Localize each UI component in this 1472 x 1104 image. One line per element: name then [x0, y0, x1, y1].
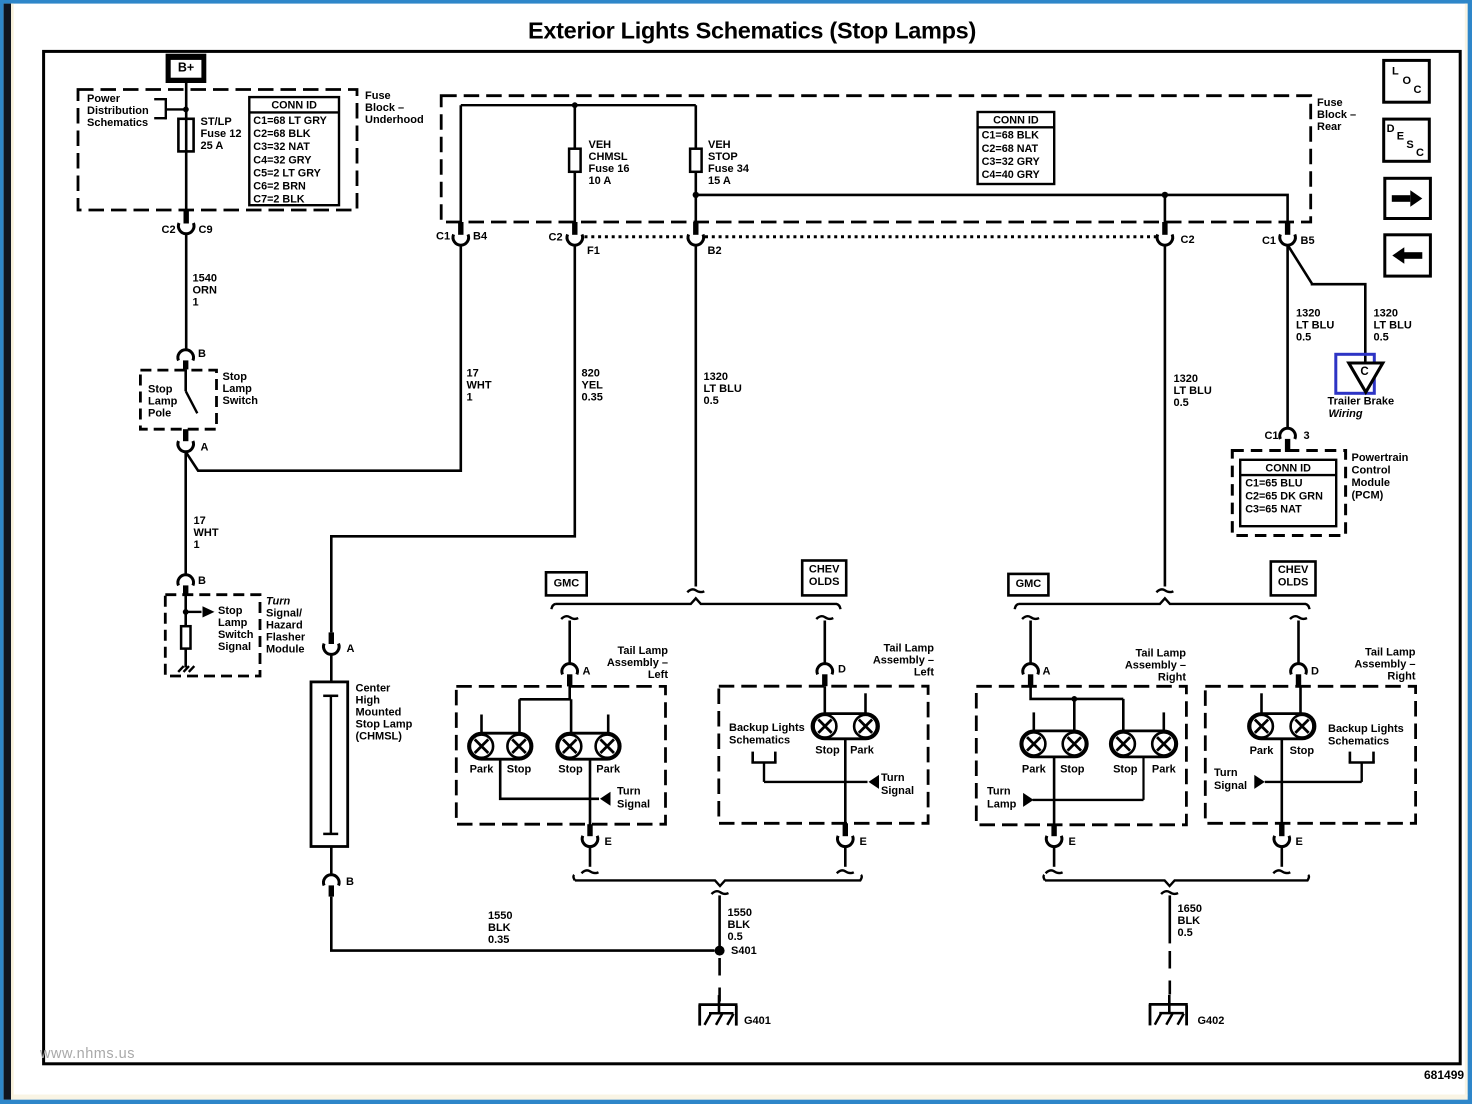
svg-text:Switch: Switch — [218, 629, 254, 641]
svg-text:C2: C2 — [162, 224, 176, 236]
svg-text:Block –: Block – — [365, 102, 404, 114]
bulb stop/park CHEV-left — [812, 714, 879, 739]
wire bus to C1/B4 — [459, 105, 462, 222]
svg-text:GMC: GMC — [554, 577, 580, 589]
svg-text:C1: C1 — [436, 231, 450, 243]
ground G402 — [1149, 1003, 1188, 1006]
trailer brake connector C triangle — [1349, 363, 1383, 392]
svg-text:Stop: Stop — [148, 384, 173, 396]
svg-text:Signal: Signal — [1214, 780, 1247, 792]
svg-text:Park: Park — [1022, 764, 1047, 776]
node junction below fuse 34 — [693, 192, 699, 198]
svg-text:3: 3 — [1304, 430, 1310, 442]
svg-text:1650: 1650 — [1178, 903, 1202, 915]
label CHEV OLDS left — [802, 561, 846, 596]
svg-text:D: D — [1311, 665, 1319, 677]
battery B+ terminal box — [166, 54, 207, 83]
dark left margin bar — [4, 4, 11, 1100]
svg-text:Turn: Turn — [266, 596, 291, 608]
svg-text:15 A: 15 A — [708, 175, 731, 187]
connector E GMC-right — [1046, 825, 1076, 848]
svg-text:C2=65 DK GRN: C2=65 DK GRN — [1245, 491, 1323, 503]
wire branch to GMC-right A — [1029, 621, 1032, 664]
svg-text:VEH: VEH — [708, 139, 731, 151]
svg-text:Stop: Stop — [815, 745, 840, 757]
svg-text:C1: C1 — [1262, 235, 1276, 247]
svg-text:WHT: WHT — [467, 380, 492, 392]
node junction rear bus at C2 — [1162, 192, 1168, 198]
svg-text:F1: F1 — [587, 245, 600, 257]
svg-text:www.nhms.us: www.nhms.us — [39, 1046, 135, 1062]
svg-text:0.5: 0.5 — [1178, 927, 1193, 939]
node splice S401 — [715, 946, 725, 956]
svg-text:GMC: GMC — [1016, 578, 1042, 590]
svg-text:Tail Lamp: Tail Lamp — [1365, 647, 1416, 659]
svg-text:Block –: Block – — [1317, 109, 1356, 121]
svg-text:E: E — [605, 836, 612, 848]
svg-text:(PCM): (PCM) — [1352, 489, 1384, 501]
right distribution bus — [1015, 598, 1310, 609]
svg-text:STOP: STOP — [708, 151, 738, 163]
dashed box PCM — [1232, 451, 1345, 536]
svg-text:Hazard: Hazard — [266, 620, 303, 632]
svg-text:Stop: Stop — [558, 763, 583, 775]
svg-text:Stop: Stop — [218, 605, 243, 617]
svg-text:Assembly –: Assembly – — [1125, 660, 1186, 672]
svg-text:O: O — [1403, 75, 1412, 87]
svg-text:B: B — [346, 876, 354, 888]
svg-text:CONN ID: CONN ID — [1265, 462, 1311, 474]
svg-text:1320: 1320 — [1374, 308, 1398, 320]
svg-text:ORN: ORN — [193, 285, 218, 297]
turn signal arrow CHEV-left — [845, 775, 879, 789]
icon box next arrow — [1385, 178, 1431, 218]
svg-text:Exterior Lights Schematics (St: Exterior Lights Schematics (Stop Lamps) — [528, 18, 976, 44]
wire D into bulb CHEV-right — [1299, 686, 1302, 713]
svg-text:Left: Left — [914, 667, 935, 679]
svg-text:C2=68 BLK: C2=68 BLK — [253, 128, 311, 140]
ground bus left pair — [573, 875, 861, 886]
wire-continuation mark GMC-right branch — [1022, 616, 1039, 619]
stop lamp switch signal arrow — [186, 606, 215, 617]
park filament stub GMC-right inner — [1163, 712, 1166, 731]
power distribution reference bracket — [154, 98, 186, 119]
svg-text:Lamp: Lamp — [218, 617, 248, 629]
svg-text:Signal: Signal — [218, 641, 251, 653]
park filament stub CHEV-left — [864, 693, 867, 713]
wire D into bulb CHEV-left — [823, 686, 826, 713]
svg-text:(CHMSL): (CHMSL) — [356, 731, 403, 743]
svg-text:Right: Right — [1158, 672, 1186, 684]
wire branch to GMC-left A — [568, 621, 571, 664]
svg-text:17: 17 — [467, 368, 479, 380]
svg-text:Backup Lights: Backup Lights — [729, 722, 805, 734]
dashed box tail lamp assembly left CHEV — [719, 686, 928, 823]
wire stop lamp switch signal — [184, 595, 187, 626]
wire-continuation mark at right bus feed — [1156, 589, 1173, 592]
svg-text:S401: S401 — [731, 945, 757, 957]
dashed box turn signal hazard flasher module — [165, 595, 260, 676]
svg-text:C1=65 BLU: C1=65 BLU — [1245, 478, 1303, 490]
svg-text:E: E — [1397, 130, 1404, 142]
svg-text:C2: C2 — [1181, 234, 1195, 246]
svg-text:A: A — [1043, 665, 1051, 677]
svg-text:Stop: Stop — [507, 763, 532, 775]
wire A into bulbs GMC-left — [520, 686, 572, 733]
svg-text:0.5: 0.5 — [728, 931, 743, 943]
ground G401 — [699, 1003, 738, 1006]
turn signal arrow GMC-left — [600, 792, 611, 806]
svg-text:Lamp: Lamp — [987, 798, 1017, 810]
wire E to ground bus GMC-right — [1053, 847, 1056, 867]
svg-text:C4=32 GRY: C4=32 GRY — [253, 154, 312, 166]
svg-text:Center: Center — [356, 683, 392, 695]
park filament stub GMC-left outer — [480, 715, 483, 734]
svg-text:1: 1 — [194, 539, 200, 551]
svg-text:0.35: 0.35 — [488, 934, 509, 946]
svg-text:A: A — [347, 643, 355, 655]
wire stop output CHEV-left — [844, 739, 847, 836]
svg-text:Wiring: Wiring — [1329, 408, 1363, 420]
wire 1550 BLK 0.35 to S401 — [331, 897, 714, 951]
connector B at stop lamp switch — [178, 348, 206, 370]
svg-text:ST/LP: ST/LP — [201, 116, 232, 128]
wire-continuation mark E GMC-right — [1046, 870, 1063, 873]
svg-text:0.35: 0.35 — [582, 392, 603, 404]
svg-text:Backup Lights: Backup Lights — [1328, 723, 1404, 735]
svg-text:Power: Power — [87, 93, 121, 105]
park filament stub GMC-right outer — [1033, 712, 1036, 731]
bulb park/stop GMC-left outer — [469, 733, 533, 759]
svg-text:B4: B4 — [473, 231, 488, 243]
svg-text:C: C — [1414, 84, 1422, 96]
svg-text:BLK: BLK — [728, 919, 751, 931]
bulb park/stop GMC-right outer — [1021, 731, 1088, 757]
svg-text:Trailer Brake: Trailer Brake — [1328, 395, 1395, 407]
svg-text:L: L — [1392, 66, 1399, 78]
svg-text:0.5: 0.5 — [1374, 332, 1389, 344]
wire B+ to fuse ST/LP — [185, 83, 188, 210]
svg-text:OLDS: OLDS — [1278, 577, 1309, 589]
svg-text:Stop Lamp: Stop Lamp — [356, 719, 413, 731]
wire-continuation mark CHEV-left branch — [816, 616, 833, 619]
connector C1/3 at PCM — [1264, 428, 1309, 452]
svg-text:C2=68 NAT: C2=68 NAT — [982, 143, 1039, 155]
svg-text:Switch: Switch — [223, 395, 259, 407]
svg-text:1320: 1320 — [704, 371, 728, 383]
svg-text:Turn: Turn — [1214, 767, 1238, 779]
svg-text:Powertrain: Powertrain — [1352, 452, 1409, 464]
svg-text:C: C — [1416, 147, 1424, 159]
svg-text:C4=40 GRY: C4=40 GRY — [982, 169, 1041, 181]
svg-text:Assembly –: Assembly – — [873, 655, 934, 667]
svg-text:Assembly –: Assembly – — [1354, 659, 1415, 671]
wire bus to fuse 16 — [573, 105, 576, 222]
connector D CHEV-right — [1291, 664, 1319, 687]
svg-text:LT BLU: LT BLU — [1174, 385, 1212, 397]
svg-text:G401: G401 — [744, 1015, 771, 1027]
svg-text:0.5: 0.5 — [704, 395, 719, 407]
svg-text:Turn: Turn — [881, 772, 905, 784]
connector E CHEV-left — [838, 823, 867, 848]
wire rear bus fuse34 to B5 corner — [696, 195, 1288, 222]
dashed box Fuse Block - Rear — [441, 96, 1310, 222]
connector A GMC-left — [562, 664, 591, 687]
wire 1320 LT BLU from B2 — [694, 245, 697, 586]
svg-text:17: 17 — [194, 515, 206, 527]
wire-continuation mark GMC-left branch — [561, 616, 578, 619]
svg-text:LT BLU: LT BLU — [704, 383, 742, 395]
connector C2 rear — [1157, 222, 1194, 246]
connector C2/C9 — [162, 210, 213, 236]
connector A at stop lamp switch — [178, 429, 209, 453]
svg-text:1320: 1320 — [1174, 373, 1198, 385]
svg-text:Lamp: Lamp — [148, 396, 178, 408]
svg-text:Right: Right — [1387, 671, 1415, 683]
wire E to ground bus CHEV-left — [844, 847, 847, 867]
svg-text:Park: Park — [1152, 764, 1177, 776]
svg-text:High: High — [356, 695, 381, 707]
svg-text:Fuse: Fuse — [1317, 97, 1343, 109]
label GMC right — [1008, 574, 1048, 596]
svg-text:YEL: YEL — [582, 380, 604, 392]
svg-text:Schematics: Schematics — [729, 734, 790, 746]
dashed box Fuse Block - Underhood — [78, 90, 357, 211]
svg-text:C1: C1 — [1264, 430, 1278, 442]
svg-text:C3=32 NAT: C3=32 NAT — [253, 141, 310, 153]
connector B2 — [688, 222, 722, 257]
svg-text:Rear: Rear — [1317, 121, 1342, 133]
wire bus to fuse 34 — [694, 105, 697, 222]
svg-text:CONN ID: CONN ID — [271, 100, 317, 112]
svg-text:Schematics: Schematics — [1328, 736, 1389, 748]
svg-text:Stop: Stop — [1290, 745, 1315, 757]
svg-text:CHMSL: CHMSL — [589, 151, 628, 163]
svg-text:Fuse 12: Fuse 12 — [201, 128, 242, 140]
svg-text:S: S — [1406, 139, 1413, 151]
connector B at CHMSL — [324, 847, 354, 897]
svg-text:1: 1 — [193, 297, 199, 309]
svg-text:C1=68 BLK: C1=68 BLK — [982, 130, 1040, 142]
svg-text:Tail Lamp: Tail Lamp — [883, 643, 934, 655]
wire-continuation mark ground bus feed — [712, 891, 729, 894]
flasher module ground hatching — [178, 666, 194, 672]
svg-text:Signal/: Signal/ — [266, 608, 302, 620]
svg-text:Assembly –: Assembly – — [607, 657, 668, 669]
svg-text:Stop: Stop — [223, 371, 248, 383]
node junction GMC-right stop tap — [1071, 696, 1077, 702]
dotted connector face line — [585, 235, 687, 238]
svg-text:Lamp: Lamp — [223, 383, 253, 395]
stop lamp switch pole — [186, 369, 198, 413]
svg-text:Stop: Stop — [1060, 764, 1085, 776]
wire-continuation mark CHEV-right branch — [1290, 616, 1307, 619]
svg-text:E: E — [1069, 836, 1076, 848]
icon box DESC — [1384, 119, 1430, 161]
svg-text:Tail Lamp: Tail Lamp — [617, 645, 668, 657]
trailer brake wiring blue square — [1336, 354, 1375, 393]
svg-text:Underhood: Underhood — [365, 114, 424, 126]
dashed box tail lamp assembly right CHEV — [1205, 686, 1415, 823]
svg-text:Tail Lamp: Tail Lamp — [1135, 648, 1186, 660]
connector E CHEV-right — [1274, 823, 1303, 848]
svg-text:Park: Park — [1250, 745, 1275, 757]
svg-text:OLDS: OLDS — [809, 576, 840, 588]
node junction flasher signal tap — [183, 609, 189, 615]
svg-text:Park: Park — [850, 745, 875, 757]
svg-text:0.5: 0.5 — [1296, 332, 1311, 344]
svg-text:Pole: Pole — [148, 408, 171, 420]
svg-text:BLK: BLK — [488, 922, 511, 934]
svg-text:WHT: WHT — [194, 527, 219, 539]
svg-text:Turn: Turn — [987, 785, 1011, 797]
svg-text:CONN ID: CONN ID — [993, 115, 1039, 127]
wire-continuation mark ground bus right feed — [1161, 891, 1178, 894]
svg-text:Park: Park — [596, 763, 621, 775]
wire E to ground bus GMC-left — [589, 847, 592, 867]
svg-text:C3=65 NAT: C3=65 NAT — [1245, 504, 1302, 516]
wire 17 WHT to flasher module — [184, 452, 187, 575]
svg-text:Stop: Stop — [1113, 764, 1138, 776]
svg-text:B2: B2 — [708, 245, 722, 257]
svg-text:D: D — [1387, 123, 1395, 135]
icon box LOC — [1384, 60, 1430, 102]
svg-text:C2: C2 — [549, 232, 563, 244]
connector A at CHMSL — [324, 632, 355, 655]
lamp CHMSL — [311, 682, 348, 847]
svg-text:B: B — [198, 575, 206, 587]
turn lamp arrow GMC-right — [1023, 793, 1034, 807]
ground bus right pair — [1044, 875, 1309, 886]
svg-text:Module: Module — [1352, 477, 1391, 489]
svg-text:Mounted: Mounted — [356, 707, 402, 719]
wire-continuation mark at left bus feed — [687, 589, 704, 592]
svg-text:C7=2 BLK: C7=2 BLK — [253, 194, 305, 206]
wire 1550 BLK 0.5 — [718, 895, 721, 950]
svg-text:B: B — [198, 348, 206, 360]
wire E to ground bus CHEV-right — [1281, 847, 1284, 867]
resistor in flasher module — [181, 626, 190, 648]
connector C2/F1 — [549, 222, 600, 257]
svg-text:Turn: Turn — [617, 786, 641, 798]
connector E GMC-left — [582, 824, 612, 848]
svg-text:B+: B+ — [178, 61, 194, 75]
wire turn lamp line GMC-right — [1033, 799, 1144, 801]
wire-continuation mark E CHEV-right — [1273, 870, 1290, 873]
svg-text:G402: G402 — [1198, 1015, 1225, 1027]
label CHEV OLDS right — [1271, 562, 1316, 596]
svg-text:BLK: BLK — [1178, 915, 1201, 927]
wire 1320 LT BLU branch to trailer brake — [1289, 247, 1366, 363]
svg-text:1320: 1320 — [1296, 308, 1320, 320]
svg-text:1: 1 — [467, 392, 473, 404]
park filament stub CHEV-right — [1260, 693, 1263, 713]
svg-text:C6=2 BRN: C6=2 BRN — [253, 181, 306, 193]
svg-text:LT BLU: LT BLU — [1296, 320, 1334, 332]
backup lights reference bracket CHEV-left — [751, 752, 845, 782]
svg-text:CHEV: CHEV — [809, 563, 840, 575]
svg-text:E: E — [1296, 836, 1303, 848]
wire turn signal tap GMC-left — [500, 759, 599, 799]
connector D CHEV-left — [817, 663, 846, 686]
svg-text:Flasher: Flasher — [266, 632, 306, 644]
svg-text:E: E — [860, 836, 867, 848]
connector C1/B5 — [1262, 222, 1315, 247]
wire 1540 ORN — [185, 234, 188, 350]
svg-text:VEH: VEH — [589, 139, 612, 151]
svg-text:Signal: Signal — [617, 799, 650, 811]
svg-text:Left: Left — [648, 669, 669, 681]
park filament stub GMC-left inner — [607, 715, 610, 734]
icon box previous arrow — [1385, 235, 1431, 276]
dashed box stop lamp switch — [140, 370, 216, 429]
wire-continuation mark E CHEV-left — [837, 870, 854, 873]
wire stop output GMC-left — [589, 759, 592, 836]
wire 820 YEL — [331, 245, 575, 632]
wire stop output GMC-right — [1053, 757, 1056, 836]
svg-text:CHEV: CHEV — [1278, 564, 1309, 576]
wire CHMSL A to lamp — [330, 654, 333, 682]
bulb park/stop CHEV-right — [1249, 714, 1316, 739]
wire 1320 LT BLU from rear C2 — [1164, 245, 1167, 586]
svg-text:Park: Park — [470, 763, 495, 775]
bulb park/stop GMC-right inner — [1110, 731, 1177, 757]
wire-continuation mark E GMC-left — [582, 870, 599, 873]
turn signal arrow CHEV-right — [1254, 775, 1282, 789]
fuse VEH STOP Fuse 34 15A — [690, 149, 702, 172]
svg-text:1550: 1550 — [728, 907, 752, 919]
node bus junction at fuse 16 — [572, 102, 578, 108]
svg-text:681499: 681499 — [1424, 1068, 1464, 1082]
wire 1320 LT BLU B5 to PCM — [1286, 245, 1289, 428]
svg-text:C3=32 GRY: C3=32 GRY — [982, 156, 1041, 168]
svg-text:820: 820 — [582, 368, 600, 380]
svg-text:C1=68 LT GRY: C1=68 LT GRY — [253, 115, 327, 127]
conn-id table rear fuse block — [978, 112, 1055, 184]
svg-text:10 A: 10 A — [589, 175, 612, 187]
svg-text:Fuse 34: Fuse 34 — [708, 163, 750, 175]
wire branch to CHEV-right D — [1297, 621, 1300, 664]
svg-text:A: A — [583, 665, 591, 677]
svg-text:Fuse: Fuse — [365, 90, 391, 102]
svg-text:D: D — [838, 663, 846, 675]
svg-text:25 A: 25 A — [201, 140, 224, 152]
connector A GMC-right — [1023, 664, 1051, 687]
dashed box tail lamp assembly left GMC — [456, 686, 665, 824]
wire 17 WHT branch to C1/B4 — [186, 246, 461, 471]
backup lights reference bracket CHEV-right — [1282, 752, 1375, 782]
svg-text:1550: 1550 — [488, 910, 512, 922]
connector C1/B4 — [436, 222, 488, 245]
svg-text:Fuse 16: Fuse 16 — [589, 163, 630, 175]
svg-text:C: C — [1360, 366, 1368, 378]
wire resistor to module ground — [184, 649, 187, 668]
wire A into bulbs GMC-right — [1031, 686, 1124, 731]
svg-text:Signal: Signal — [881, 785, 914, 797]
wire to G402 dashed — [1169, 951, 1172, 995]
svg-text:B5: B5 — [1301, 235, 1315, 247]
node junction at power distribution tap — [183, 107, 189, 113]
svg-text:Control: Control — [1352, 464, 1391, 476]
conn-id table PCM — [1240, 460, 1336, 526]
fuse VEH CHMSL Fuse 16 10A — [569, 149, 581, 172]
label GMC left — [546, 572, 587, 595]
wire 1650 BLK 0.5 — [1169, 895, 1172, 943]
wire rear bus drop to C2 — [1164, 195, 1167, 222]
dashed box tail lamp assembly right GMC — [976, 686, 1186, 825]
conn-id table underhood — [249, 97, 339, 205]
svg-text:Distribution: Distribution — [87, 105, 149, 117]
